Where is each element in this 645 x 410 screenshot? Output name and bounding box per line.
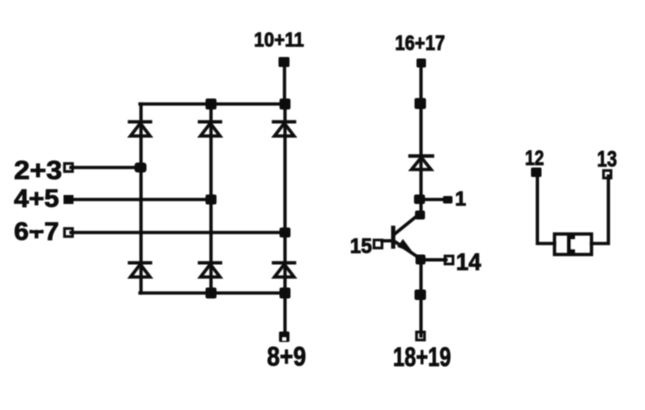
junction: bottom bus / leg 2	[206, 288, 217, 299]
svg-text:4+5: 4+5	[14, 185, 59, 213]
transistor Q1 base lead to terminal 15	[382, 239, 392, 242]
label 6+7	[14, 218, 59, 246]
svg-text:13: 13	[597, 147, 617, 172]
svg-text:16+17: 16+17	[395, 32, 445, 55]
wire: AC input lead 4+5	[71, 198, 211, 201]
junction: AC lead 6+7 on leg 3	[280, 228, 291, 238]
svg-text:10+11: 10+11	[254, 30, 304, 52]
svg-text:14: 14	[456, 249, 482, 276]
wire: chopper branch vertical (terminal 16+17 down to transistor collector)	[419, 64, 422, 215]
transistor Q1 emitter lead (diagonal)	[394, 241, 421, 259]
svg-text:12: 12	[525, 147, 544, 170]
thermistor R1 divider notch	[571, 240, 577, 250]
diode D4 (lower, leg 1)	[130, 263, 151, 277]
wire: bridge leg 2 vertical	[209, 104, 212, 293]
junction: bottom bus / leg 3	[280, 288, 291, 299]
wire: top DC+ bus of bridge	[140, 102, 286, 105]
wire: lead from top bus up to terminal 10+11	[283, 63, 286, 104]
thermistor R1 body	[555, 234, 592, 255]
terminal 13	[604, 171, 612, 179]
diode D7 (chopper freewheel diode)	[410, 156, 433, 170]
wire: bottom DC- bus of bridge	[140, 291, 286, 294]
junction: AC lead 2+3 on leg 1	[135, 163, 147, 173]
svg-text:15: 15	[350, 235, 372, 258]
wire: bridge leg 3 vertical	[283, 104, 286, 293]
thermistor R1 internal divider	[567, 236, 575, 254]
transistor Q1 base bar	[391, 228, 395, 247]
junction: collector node	[415, 211, 425, 220]
junction blob on chopper branch lower	[415, 290, 427, 301]
svg-text:18+19: 18+19	[393, 342, 451, 372]
terminal 12	[531, 168, 542, 178]
terminal 6+7	[65, 229, 73, 237]
junction: top bus / leg 2	[206, 99, 217, 110]
diode D1 (upper, leg 1)	[130, 122, 151, 136]
wire: bridge leg 1 vertical	[139, 104, 142, 293]
transistor Q1 collector lead (diagonal)	[394, 214, 420, 235]
wire: AC input lead 6+7	[71, 231, 285, 234]
wire: lead from bottom bus down to terminal 8+9	[283, 293, 286, 336]
junction: emitter node	[416, 255, 426, 265]
wire: collector node to terminal 1	[421, 198, 445, 201]
wire: terminal 13 down and left to thermistor	[592, 176, 609, 244]
wire: AC input lead 2+3	[71, 166, 141, 169]
diode D2 (upper, leg 2)	[200, 122, 221, 136]
terminal 2+3	[65, 164, 73, 172]
junction: top bus / leg 3	[280, 99, 291, 110]
terminal 18+19	[417, 332, 425, 340]
terminal 16+17	[417, 59, 427, 68]
terminal 10+11 (top of bridge)	[279, 57, 290, 67]
diode D5 (lower, leg 2)	[200, 263, 221, 277]
wire: terminal 12 down and right to thermistor	[537, 175, 554, 244]
svg-text:2+3: 2+3	[14, 155, 62, 185]
svg-text:8+9: 8+9	[267, 342, 306, 372]
wire: emitter node to terminal 14	[421, 258, 446, 261]
transistor Q1 emitter arrow	[397, 239, 413, 253]
wire: emitter node down to terminal 18+19	[419, 259, 422, 336]
junction blob on chopper branch upper	[415, 98, 427, 109]
terminal 8+9 (bottom of bridge)	[279, 332, 290, 343]
terminal 1	[443, 196, 453, 204]
terminal 15	[374, 240, 382, 248]
svg-text:1: 1	[455, 189, 466, 211]
terminal 4+5	[64, 195, 74, 204]
diode D6 (lower, leg 3)	[274, 263, 295, 277]
diode D3 (upper, leg 3)	[274, 122, 295, 136]
junction: collector / terminal-1 tap	[414, 195, 425, 205]
terminal 14	[445, 256, 453, 264]
junction: AC lead 4+5 on leg 2	[206, 195, 217, 205]
